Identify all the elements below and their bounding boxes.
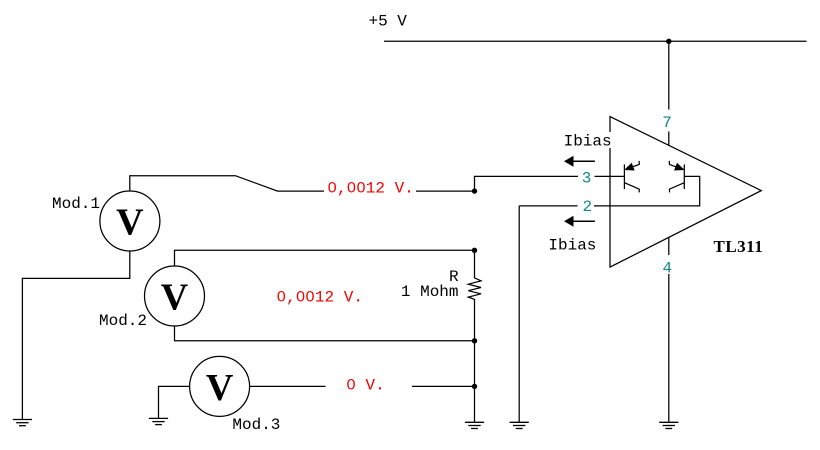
node junction bus / V2 top — [472, 248, 477, 253]
svg-text:Mod.2: Mod.2 — [99, 312, 147, 330]
svg-text:Mod.1: Mod.1 — [52, 195, 100, 213]
voltmeter V3 circle — [190, 356, 250, 416]
red value label 0,0012 V. (Mod.2 reading) — [277, 289, 363, 307]
wire pin 4 to ground — [668, 237, 670, 422]
label Ibias top — [561, 132, 613, 151]
ground GND V1 — [13, 420, 32, 426]
pin 3 label — [578, 168, 595, 188]
svg-text:Mod.3: Mod.3 — [232, 416, 280, 434]
wire bus to ground — [474, 386, 476, 422]
transistor Q2 (right input transistor) — [669, 161, 684, 193]
svg-text:1 Mohm: 1 Mohm — [401, 283, 459, 301]
ground GND bus — [465, 422, 484, 428]
svg-text:Ibias: Ibias — [548, 236, 596, 254]
voltmeter V2 circle — [145, 266, 205, 326]
pin 2 label — [578, 197, 595, 216]
wire pin 3 input (bus to Q1 base) — [475, 176, 625, 191]
svg-text:2: 2 — [582, 198, 592, 216]
svg-text:V: V — [206, 367, 234, 409]
svg-text:V: V — [161, 277, 189, 319]
wire voltmeter V2 top to bus — [175, 250, 475, 266]
wire bus V2 bottom to V3 node — [474, 341, 476, 387]
svg-text:4: 4 — [662, 259, 672, 277]
resistor R 1 Mohm — [468, 250, 481, 340]
wire pin 2 to ground — [518, 206, 520, 422]
pin 4 label — [661, 255, 674, 277]
pin 7 label — [661, 110, 674, 132]
svg-text:V: V — [116, 202, 144, 244]
svg-text:0,0012 V.: 0,0012 V. — [277, 289, 363, 307]
ground GND pin2 — [510, 422, 529, 428]
wire voltmeter V2 bottom to bus — [175, 326, 475, 341]
arrow Ibias pin2 — [564, 216, 595, 227]
svg-text:0,0012 V.: 0,0012 V. — [327, 179, 413, 197]
red value label 0,0012 V. (Mod.1 reading) — [324, 179, 416, 197]
wire voltmeter V1 top to node A — [130, 176, 475, 192]
node junction rail to pin7 — [666, 39, 671, 44]
wire pin 7 (V+ supply into op-amp) — [668, 41, 670, 146]
node A junction (bus top) — [472, 188, 477, 193]
wire voltmeter V3 right to bus — [250, 385, 475, 387]
svg-text:7: 7 — [662, 114, 672, 132]
arrow Ibias pin3 — [564, 156, 595, 167]
transistor Q1 (left input transistor) — [624, 161, 639, 193]
wire pin 2 input (to Q2 base loop) — [519, 176, 700, 206]
ground GND V3 — [149, 418, 168, 424]
node junction bus / V2 bottom — [472, 338, 477, 343]
voltmeter V1 circle — [100, 191, 160, 251]
op-amp U1 triangle (TL311 comparator) — [610, 117, 761, 268]
svg-text:Ibias: Ibias — [564, 133, 612, 151]
wire voltmeter V3 left to ground — [159, 386, 190, 418]
node junction bus / V3 — [472, 384, 477, 389]
ground GND pin4 — [659, 422, 678, 428]
wire voltmeter V1 bottom to ground — [22, 251, 129, 420]
svg-text:3: 3 — [582, 170, 592, 188]
red value label 0 V. (Mod.3 reading) — [326, 376, 413, 394]
svg-text:TL311: TL311 — [714, 237, 764, 256]
svg-text:+5 V: +5 V — [369, 13, 408, 31]
wire +5V power rail — [384, 40, 807, 42]
